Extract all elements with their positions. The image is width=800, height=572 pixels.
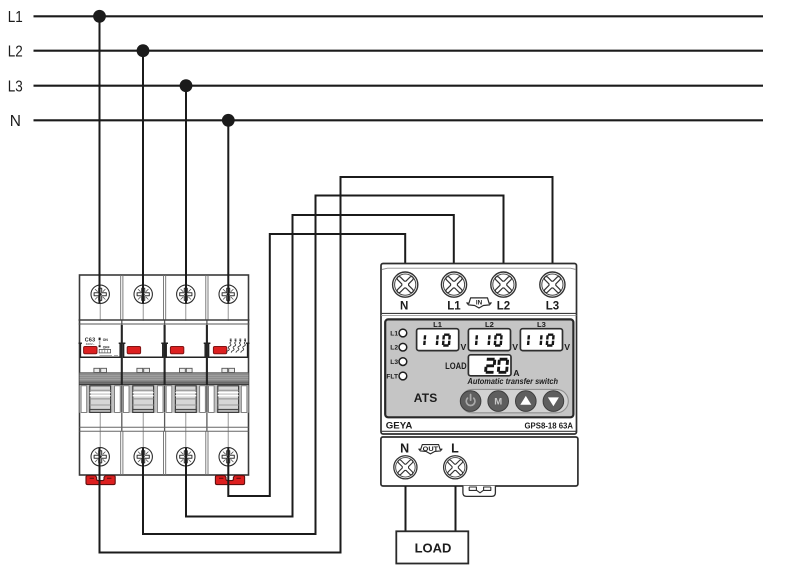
wire N bus [34,119,764,121]
svg-text:OUT: OUT [423,446,439,453]
breaker screw bottom pole4 [219,448,237,466]
wire L1 bus [34,15,764,17]
breaker terminal slot lines top [100,294,228,321]
breaker terminal slot lines bottom [100,413,228,457]
breaker outline [80,275,249,475]
ATS LED L3 [399,358,407,366]
breaker screw top pole3 [177,285,195,303]
svg-text:GPS8-18 63A: GPS8-18 63A [525,422,574,431]
wire L2 bus [34,50,764,52]
svg-text:Automatic transfer switch: Automatic transfer switch [467,377,558,386]
svg-text:M: M [494,397,502,408]
svg-text:ON: ON [103,338,109,342]
ATS terminal screw L2 [491,272,516,297]
ATS button power [460,391,481,412]
ATS lower body outline [381,437,578,486]
breaker gray band [80,373,249,385]
ATS terminal screw L1 [441,272,466,297]
breaker DIN clip pole1 [81,386,120,413]
breaker pole divider 2-3 [164,320,166,431]
svg-text:N: N [400,442,409,456]
svg-text:V: V [564,342,570,352]
breaker screw bottom pole3 [177,448,195,466]
breaker ON/OFF indicator strip [99,338,101,341]
breaker trip coil marks pole4 [226,339,246,353]
svg-text:L2: L2 [390,345,398,352]
svg-text:L: L [451,442,459,456]
ATS terminal screw L3 [540,272,565,297]
svg-text:L1: L1 [390,330,398,337]
svg-text:IN: IN [476,299,483,306]
junction dot L1 [93,10,106,23]
ATS LED L1 [399,329,407,337]
junction dot L2 [137,44,150,57]
breaker screw bottom pole2 [134,448,152,466]
breaker handle frame pole4 [207,343,250,357]
breaker DIN clip pole3 [166,386,205,413]
breaker tabs pole2 [137,368,143,372]
ATS module divider line [381,430,577,432]
breaker screw top pole2 [134,285,152,303]
wire L1 bus to breaker pole1 [99,16,101,303]
ATS out screw L [444,456,467,479]
breaker handle frame pole1 [79,343,123,357]
ATS LED FLT [399,372,407,380]
svg-text:ATS: ATS [414,391,438,405]
svg-text:L3: L3 [8,79,23,96]
wire breaker pole4 to ATS N [228,234,405,496]
ATS terminal screw N [393,272,418,297]
ATS din connector tab [463,486,496,497]
breaker screw bottom pole1 [91,448,109,466]
ATS seam above panel [381,312,577,314]
wire breaker pole1 to ATS L3 [100,177,553,553]
ATS gray panel [385,319,573,417]
ATS top bevel seam [382,268,576,269]
ATS button M [488,391,509,412]
breaker dark divider segments [122,325,207,386]
breaker handle frame pole3 [165,343,207,357]
breaker red handle pole2 [127,347,140,354]
svg-text:L2: L2 [497,300,510,312]
ATS LOAD display [468,355,511,376]
svg-text:L1: L1 [8,9,23,26]
svg-text:L3: L3 [546,300,559,312]
ATS out screw N [394,456,417,479]
svg-text:V: V [461,342,467,352]
ATS button down [543,391,564,412]
breaker microtext line [100,355,119,357]
svg-text:L1: L1 [447,300,461,312]
wire ATS L out to load [455,486,457,532]
breaker tabs pole1 [94,368,235,372]
svg-text:L2: L2 [8,44,23,61]
breaker DIN clip pole4 [209,386,247,413]
wire L2 bus to breaker pole2 [142,51,144,304]
svg-text:LOAD: LOAD [445,361,467,371]
wire ATS N out to load [405,486,407,532]
ATS U1 body [381,264,578,497]
breaker pole divider 3-4 [206,320,208,431]
breaker pole divider 1-2 [121,320,123,431]
breaker handle frame pole2 [122,343,165,357]
breaker red handle pole4 [213,347,226,354]
svg-text:FLT: FLT [386,373,398,380]
ATS upper body outline [381,264,577,435]
breaker red terminal clip pole1 [86,476,115,485]
breaker ledge lines [79,319,250,321]
breaker screw top pole1 [91,285,109,303]
wire L3 bus [34,85,764,87]
LOAD box [396,531,468,563]
ATS button pill [461,389,569,412]
svg-text:LOAD: LOAD [415,541,452,556]
svg-text:N: N [10,113,21,130]
ATS display L3 [520,329,562,351]
ATS display L1 [417,329,459,351]
svg-text:N: N [400,300,408,312]
ATS IN badge [467,298,491,308]
junction dot L3 [180,79,193,92]
wire N bus to breaker pole4 [227,120,229,303]
svg-text:400V~: 400V~ [86,342,95,346]
ATS button up [516,391,537,412]
breaker screw top pole4 [219,285,237,303]
breaker red terminal clip pole4 [215,476,244,485]
ATS LED L2 [399,343,407,351]
wire breaker pole3 to ATS L1 [186,215,454,517]
svg-text:L3: L3 [390,359,398,366]
breaker tabs pole4 [222,368,228,372]
svg-text:V: V [512,342,518,352]
ATS display L2 [468,329,510,351]
breaker red handle pole3 [170,347,183,354]
breaker red handle pole1 [84,347,97,354]
breaker DIN clip pole2 [123,386,163,413]
circuit breaker QF body [79,275,250,485]
breaker OFF window [99,349,110,353]
svg-text:GEYA: GEYA [386,421,413,432]
breaker tabs pole3 [180,368,186,372]
wire L3 bus to breaker pole3 [185,86,187,304]
ATS OUT badge [419,445,442,454]
breaker lower seam lines [80,426,249,428]
wire breaker pole2 to ATS L2 [143,196,504,535]
junction dot N [222,114,235,127]
